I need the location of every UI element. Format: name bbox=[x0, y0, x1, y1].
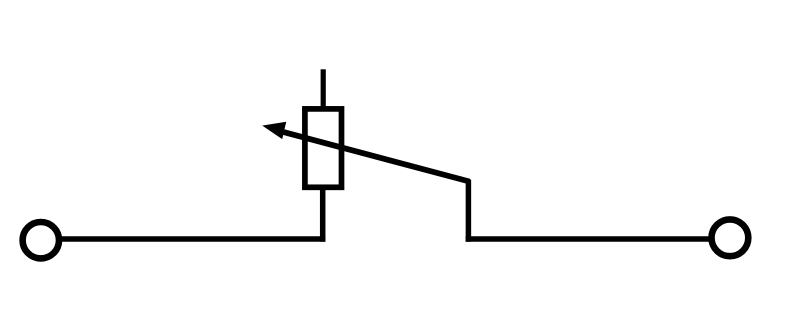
wire: resistor top lead bbox=[321, 69, 326, 108]
potentiometer R1 wiper arrowhead bbox=[264, 123, 285, 138]
potentiometer R1 body (rectangle) bbox=[305, 109, 342, 187]
terminal T1 (left open circle) bbox=[23, 222, 59, 258]
potentiometer R1 wiper arrow shaft bbox=[284, 132, 470, 181]
wire: wiper to right terminal bbox=[466, 236, 711, 242]
wire: left terminal to resistor bottom lead bbox=[62, 236, 326, 242]
wire: wiper drop (vertical) bbox=[466, 180, 472, 242]
wire: vertical riser to resistor bottom bbox=[320, 187, 326, 242]
terminal T2 (right open circle) bbox=[712, 219, 749, 256]
